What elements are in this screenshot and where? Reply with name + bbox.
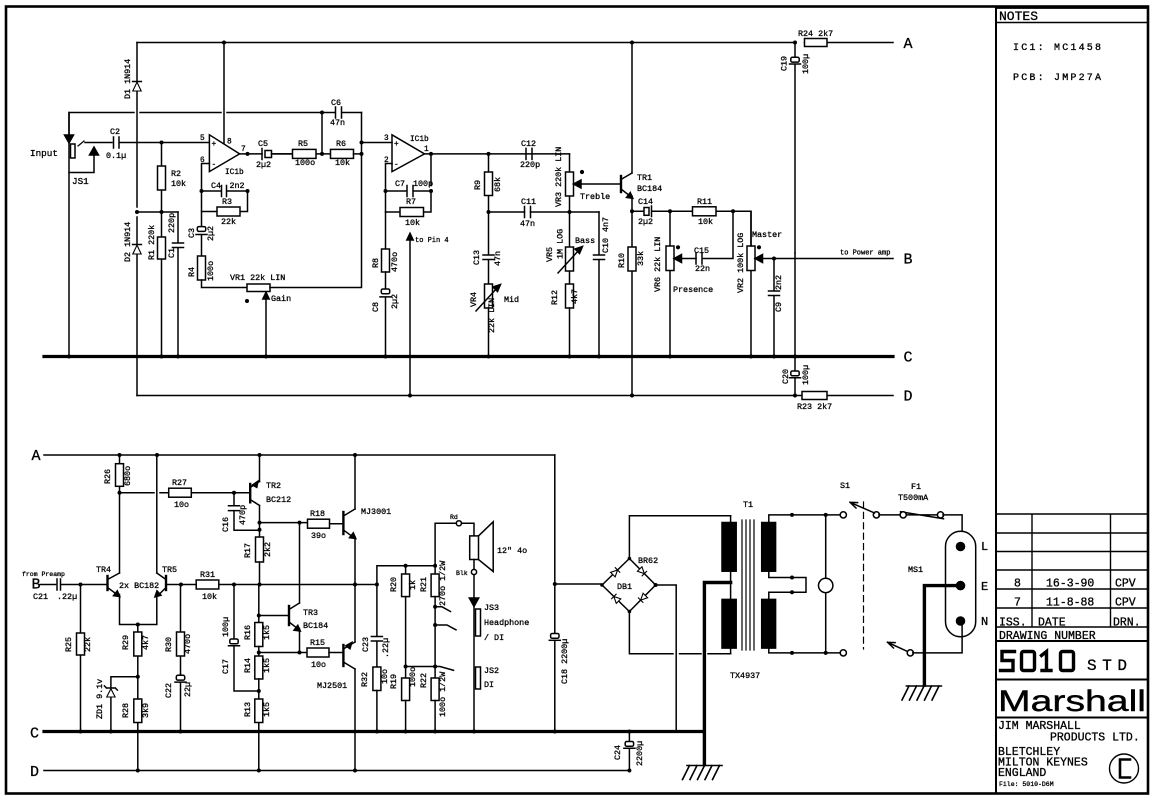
diode D1 1N914	[133, 43, 142, 208]
wire fuse to mains L	[943, 515, 962, 546]
wire bridge S to transformer primary bottom	[629, 612, 730, 654]
transistor MJ3001	[342, 512, 344, 534]
potentiometer VR3 220k LIN (Treble)	[569, 154, 571, 212]
wire TR2 collector chain	[259, 506, 261, 538]
svg-text:22k: 22k	[221, 217, 236, 227]
svg-text:C17: C17	[221, 659, 231, 674]
svg-text:22n: 22n	[695, 264, 710, 274]
svg-text:R2: R2	[171, 169, 181, 179]
svg-text:10o: 10o	[311, 660, 326, 670]
svg-text:2k2: 2k2	[263, 542, 273, 557]
wire mains E to ground (thick)	[924, 586, 956, 685]
resistor R19 100o	[402, 678, 410, 701]
svg-text:Mid: Mid	[504, 295, 519, 305]
capacitor C21 .22u	[57, 579, 108, 590]
fuse F1 T500mA	[879, 512, 944, 519]
svg-text:MS1: MS1	[908, 565, 923, 575]
transistor TR5	[165, 576, 167, 590]
svg-text:C7: C7	[395, 179, 405, 189]
svg-text:470o: 470o	[390, 252, 400, 272]
svg-text:R9: R9	[473, 180, 483, 190]
wire C11 node line y=212	[489, 211, 600, 213]
svg-text:100o: 100o	[408, 667, 418, 687]
svg-text:ISS.: ISS.	[999, 617, 1027, 630]
svg-text:2x BC182: 2x BC182	[119, 581, 159, 591]
transistor MJ2501	[342, 645, 344, 666]
svg-text:S1: S1	[840, 481, 850, 491]
wire TR3 collector	[299, 523, 301, 603]
svg-text:Blk: Blk	[456, 570, 468, 577]
wire TR5 collector to A rail	[156, 455, 158, 573]
svg-text:R7: R7	[406, 197, 416, 207]
capacitor C9 2n2	[769, 259, 780, 356]
wire main output line	[166, 584, 377, 586]
capacitor C23 .22u	[371, 585, 382, 668]
svg-text:BR62: BR62	[638, 556, 658, 566]
svg-text:TR5: TR5	[162, 565, 177, 575]
capacitor C22 22u	[175, 674, 186, 732]
capacitor C13 47n	[483, 212, 494, 284]
svg-text:IC1b: IC1b	[225, 169, 244, 177]
svg-text:C23: C23	[361, 637, 371, 652]
svg-text:CPV: CPV	[1115, 597, 1136, 610]
resistor R2 10k	[161, 143, 163, 213]
wire TR2 emitter to A rail	[259, 455, 261, 482]
svg-text:R1 220k: R1 220k	[147, 225, 157, 260]
capacitor C5 2u2	[262, 149, 293, 160]
wire R26 to R27 to TR2 base	[120, 492, 251, 494]
svg-text:B: B	[904, 252, 913, 269]
resistor R12 4k7	[566, 284, 574, 308]
svg-text:VR2 100k LOG: VR2 100k LOG	[736, 233, 746, 293]
svg-text:E: E	[981, 580, 988, 594]
svg-text:VR4: VR4	[469, 292, 479, 307]
svg-text:1k5: 1k5	[262, 702, 272, 717]
svg-text:Bass: Bass	[575, 236, 595, 246]
svg-text:VR1 22k LIN: VR1 22k LIN	[230, 273, 285, 283]
svg-text:R17: R17	[243, 543, 253, 558]
potentiometer VR4 22k LIN (Mid)	[485, 284, 493, 308]
svg-text:PRODUCTS LTD.: PRODUCTS LTD.	[1050, 732, 1140, 745]
capacitor C14 2u2	[652, 206, 671, 217]
svg-text:10k: 10k	[335, 158, 350, 168]
svg-text:C18 2200µ: C18 2200µ	[560, 639, 570, 684]
svg-text:DB1: DB1	[617, 582, 632, 592]
wire input line to IC pin5	[85, 142, 209, 144]
svg-text:0.1µ: 0.1µ	[106, 151, 126, 161]
op-amp IC1b first stage	[209, 135, 239, 172]
svg-text:C11: C11	[521, 197, 536, 207]
svg-text:R27: R27	[172, 478, 187, 488]
resistor R9 68k	[488, 154, 490, 212]
svg-text:7: 7	[241, 146, 246, 154]
wire C19 line down through B to C rail	[794, 253, 796, 355]
wire A rail junction dots	[222, 41, 797, 45]
node A rail (bottom section)	[44, 454, 555, 456]
capacitor C15 22n	[696, 211, 733, 264]
svg-text:68k: 68k	[493, 177, 503, 192]
svg-text:C5: C5	[258, 139, 268, 149]
svg-text:2200µ: 2200µ	[635, 741, 645, 766]
resistor R10 33k	[631, 211, 633, 395]
svg-text:C12: C12	[521, 139, 536, 149]
zener ZD1 9.1v	[104, 677, 137, 732]
capacitor C16 470p	[229, 493, 260, 531]
wire IC output node to C7/R7	[425, 154, 489, 186]
svg-text:TR1: TR1	[637, 173, 652, 183]
svg-text:IC1b: IC1b	[410, 136, 429, 144]
wire R11 to VR2 top	[733, 211, 751, 246]
capacitor C20 100u	[790, 359, 801, 396]
wire secondary centre taps	[769, 570, 806, 599]
svg-text:Treble: Treble	[580, 192, 610, 202]
resistor R32 10o	[373, 667, 381, 691]
svg-text:C2: C2	[110, 127, 120, 137]
svg-text:Gain: Gain	[271, 294, 291, 304]
svg-text:R16: R16	[243, 625, 253, 640]
wire IC1b -input	[202, 164, 210, 192]
svg-text:C15: C15	[694, 246, 709, 256]
transformer core	[742, 520, 754, 650]
resistor R24 2k7	[805, 39, 828, 47]
svg-text:220p: 220p	[520, 160, 540, 170]
svg-text:1k5: 1k5	[262, 625, 272, 640]
svg-text:IC1: MC1458: IC1: MC1458	[1013, 43, 1103, 54]
wire R14 junction to R15	[259, 652, 307, 654]
speaker 12" 4o	[470, 536, 479, 560]
speaker terminal Blk	[473, 560, 475, 570]
capacitor C19 100u	[790, 43, 801, 254]
resistor R13 1k5	[258, 679, 260, 771]
svg-text:R5: R5	[298, 139, 308, 149]
svg-text:47n: 47n	[493, 251, 503, 266]
svg-text:R32: R32	[360, 672, 370, 687]
capacitor C7 100p	[386, 186, 432, 197]
svg-text:from Preamp: from Preamp	[22, 571, 65, 578]
wire secondary top	[769, 515, 841, 523]
svg-text:3k9: 3k9	[141, 703, 151, 718]
svg-text:7: 7	[1014, 597, 1021, 610]
svg-text:JS2: JS2	[484, 666, 499, 676]
wire mains N to switch	[913, 624, 962, 653]
transistor TR3 BC184	[288, 606, 290, 625]
svg-text:DATE: DATE	[1038, 617, 1066, 630]
resistor R31 10k	[196, 580, 219, 589]
svg-text:39o: 39o	[311, 531, 326, 541]
svg-text:R11: R11	[697, 197, 712, 207]
svg-text:MJ2501: MJ2501	[317, 681, 347, 691]
svg-text:N: N	[981, 615, 988, 629]
svg-text:JS3: JS3	[484, 603, 499, 613]
svg-text:PCB: JMP27A: PCB: JMP27A	[1013, 73, 1103, 84]
svg-text:220p: 220p	[167, 213, 177, 233]
wire TR3 emitter to R15	[299, 629, 301, 653]
svg-text:10k: 10k	[202, 592, 217, 602]
svg-text:TR2: TR2	[266, 481, 281, 491]
svg-text:R21: R21	[419, 577, 429, 592]
svg-text:DRN.: DRN.	[1113, 617, 1141, 630]
svg-text:1: 1	[424, 146, 429, 154]
rail D bottom section	[44, 770, 629, 772]
resistor R28 3k9	[137, 677, 139, 771]
wire MJ3001 collector to A rail	[354, 455, 356, 509]
wire second stage +input	[362, 142, 393, 144]
svg-text:Headphone: Headphone	[484, 618, 529, 628]
mains inlet MS1	[946, 531, 976, 637]
speaker terminal Rd	[456, 521, 461, 526]
svg-text:2µ2: 2µ2	[256, 160, 271, 170]
resistor R18 39o	[260, 523, 344, 524]
svg-text:BC212: BC212	[266, 495, 291, 505]
capacitor C10 4n7	[594, 212, 605, 355]
neon lamp	[819, 578, 833, 592]
svg-text:Marshall: Marshall	[998, 685, 1146, 718]
svg-text:100o: 100o	[295, 158, 315, 168]
svg-text:File: 5010-D6M: File: 5010-D6M	[999, 781, 1054, 788]
svg-text:C: C	[30, 726, 39, 743]
svg-text:100o 1/2W: 100o 1/2W	[438, 671, 448, 717]
svg-text:+: +	[212, 141, 217, 149]
svg-text:R12: R12	[550, 290, 560, 305]
svg-text:10k: 10k	[171, 179, 186, 189]
rail C top section	[44, 355, 893, 358]
wire TR1 collector to A rail	[631, 43, 633, 174]
svg-text:2n2: 2n2	[774, 275, 784, 290]
svg-text:L: L	[981, 540, 988, 554]
resistor R20 1k	[405, 566, 407, 574]
svg-text:VR3 220k LIN: VR3 220k LIN	[554, 147, 564, 207]
to Pin 4 arrow	[409, 240, 411, 396]
svg-text:/ DI: / DI	[484, 633, 504, 643]
NOTES header	[996, 22, 1147, 24]
wire emitters join	[120, 595, 157, 625]
svg-text:.22µ: .22µ	[57, 592, 77, 602]
wire A rail corner to C18	[554, 455, 556, 732]
svg-text:1M LOG: 1M LOG	[556, 229, 566, 259]
wire MJ2501 emitter to rail D	[354, 669, 356, 771]
svg-text:C10: C10	[601, 238, 611, 253]
svg-text:TR4: TR4	[96, 565, 111, 575]
svg-text:DRAWING NUMBER: DRAWING NUMBER	[999, 630, 1096, 643]
bridge rectifier DB1 BR62	[602, 559, 656, 612]
svg-text:8: 8	[227, 139, 232, 147]
svg-text:R14: R14	[243, 658, 253, 673]
resistor R14 1k5	[258, 647, 260, 657]
svg-text:R10: R10	[617, 253, 627, 268]
revision table grid	[996, 514, 1147, 627]
resistor R23 2k7	[802, 392, 827, 400]
title panel left edge	[995, 8, 997, 793]
capacitor C18 2200u	[549, 639, 560, 641]
svg-text:R30: R30	[164, 637, 174, 652]
capacitor C6 47n	[322, 107, 362, 154]
svg-text:A: A	[904, 36, 913, 53]
jack JS3 Headphone/DI	[473, 575, 475, 732]
potentiometer VR2 100k LOG (Master)	[750, 211, 752, 355]
svg-text:100µ: 100µ	[801, 365, 811, 385]
svg-text:ZD1 9.1v: ZD1 9.1v	[95, 679, 105, 719]
svg-text:R15: R15	[310, 638, 325, 648]
svg-text:100o: 100o	[206, 261, 216, 281]
svg-text:-: -	[212, 162, 217, 170]
rail C junction dots top	[67, 355, 797, 359]
capacitor C8 2u2	[380, 272, 391, 355]
wire bridge E to rail C	[656, 585, 677, 732]
svg-text:R25: R25	[64, 637, 74, 652]
svg-text:C: C	[904, 350, 913, 367]
svg-text:470p: 470p	[238, 505, 248, 525]
wire node R1/R2/D junction y=212	[137, 211, 178, 213]
svg-text:R3: R3	[222, 197, 232, 207]
svg-text:1k5: 1k5	[262, 658, 272, 673]
resistor R7 10k	[386, 191, 432, 212]
svg-text:C21: C21	[33, 592, 48, 602]
svg-text:R28: R28	[121, 703, 131, 718]
svg-text:D2 1N914: D2 1N914	[123, 222, 133, 262]
svg-text:47n: 47n	[520, 219, 535, 229]
capacitor C17 100u	[229, 585, 259, 692]
svg-text:C19: C19	[780, 56, 790, 71]
svg-text:C13: C13	[472, 250, 482, 265]
wire VR1 right terminal to R6 node	[270, 113, 362, 288]
svg-text:22k LIN: 22k LIN	[487, 298, 497, 333]
svg-text:680o: 680o	[123, 466, 133, 486]
svg-text:C24: C24	[613, 745, 623, 760]
resistor R11 10k	[670, 210, 733, 212]
resistor R16 1k5	[258, 585, 260, 623]
svg-text:to Power amp: to Power amp	[840, 250, 890, 258]
svg-text:A: A	[32, 448, 41, 465]
svg-text:R23 2k7: R23 2k7	[797, 402, 832, 412]
svg-text:B: B	[32, 577, 41, 594]
svg-text:R4: R4	[187, 267, 197, 277]
wire IC1b out to C12/VR3	[489, 153, 570, 155]
svg-text:C1: C1	[167, 248, 177, 258]
svg-text:R13: R13	[243, 702, 253, 717]
svg-text:C20: C20	[781, 369, 791, 384]
svg-text:VR5: VR5	[545, 247, 555, 262]
resistor R29 4k7	[137, 625, 139, 677]
svg-text:100µ: 100µ	[801, 54, 811, 74]
potentiometer VR1 22k LIN (Gain)	[247, 284, 270, 292]
svg-text:C4: C4	[211, 181, 221, 191]
wire TR4 collector to R26	[119, 493, 121, 573]
resistor R8 470o	[385, 212, 387, 249]
svg-text:D1 1N914: D1 1N914	[123, 59, 133, 99]
svg-text:C9: C9	[774, 302, 784, 312]
svg-text:T500mA: T500mA	[898, 493, 929, 503]
svg-text:VR6 22k LIN: VR6 22k LIN	[653, 237, 663, 292]
svg-text:12″ 4o: 12″ 4o	[497, 546, 527, 556]
capacitor C4 2n2	[202, 186, 248, 197]
resistor R17 2k2	[256, 537, 264, 562]
svg-text:R29: R29	[121, 635, 131, 650]
wire second stage -input	[386, 164, 393, 192]
svg-text:R19: R19	[389, 674, 399, 689]
svg-text:Master: Master	[752, 230, 782, 240]
diode D2 1N914	[133, 217, 142, 396]
svg-text:CPV: CPV	[1115, 578, 1136, 591]
svg-text:1k: 1k	[408, 580, 418, 590]
svg-text:TX4937: TX4937	[730, 671, 760, 681]
svg-text:R24 2k7: R24 2k7	[798, 29, 833, 39]
svg-text:C8: C8	[371, 302, 381, 312]
transformer centre tap thick ground	[704, 583, 730, 765]
svg-text:D: D	[904, 389, 913, 406]
resistor R26 680o	[119, 455, 121, 493]
svg-text:D: D	[30, 764, 39, 781]
jack JS2 DI	[476, 667, 481, 689]
svg-text:F1: F1	[911, 482, 921, 492]
svg-text:2µ2: 2µ2	[390, 294, 400, 309]
svg-text:10k: 10k	[698, 217, 713, 227]
copyright mark	[1110, 754, 1139, 783]
svg-text:R26: R26	[103, 469, 113, 484]
svg-text:to Pin 4: to Pin 4	[415, 237, 449, 245]
rail D top section	[137, 395, 893, 397]
svg-text:C14: C14	[638, 197, 653, 207]
resistor R4 100o	[198, 256, 206, 280]
svg-text:47n: 47n	[330, 118, 345, 128]
jack JS3 contact taps	[435, 607, 456, 630]
capacitor C11 47n	[525, 207, 531, 218]
svg-text:R22: R22	[419, 673, 429, 688]
svg-text:T1: T1	[743, 500, 753, 510]
wire JS1 sleeve to rail C	[68, 173, 70, 356]
svg-text:Rd: Rd	[450, 514, 458, 521]
svg-text:270o 1/2W: 270o 1/2W	[438, 560, 448, 606]
ground symbol (transformer)	[683, 766, 723, 780]
drawing number 5010 STD	[1001, 652, 1074, 671]
resistor R6 10k	[331, 149, 354, 158]
svg-text:10o: 10o	[174, 500, 189, 510]
wire IC1b output pin7	[240, 153, 262, 155]
resistor R27 10o	[169, 488, 192, 497]
svg-text:2µ2: 2µ2	[638, 217, 653, 227]
potentiometer VR5 1M LOG (Bass)	[569, 212, 571, 284]
resistor R5 100o	[272, 153, 331, 155]
svg-text:10k: 10k	[405, 218, 420, 228]
resistor R30 470o	[180, 585, 182, 675]
svg-text:33k: 33k	[636, 251, 646, 266]
rail C bottom section	[44, 730, 703, 733]
svg-text:Presence: Presence	[673, 285, 713, 295]
transistor TR2 BC212	[249, 484, 251, 502]
svg-text:100µ: 100µ	[221, 617, 231, 637]
svg-text:-: -	[394, 162, 399, 170]
svg-text:2n2: 2n2	[230, 181, 245, 191]
wire speaker feed riser	[377, 523, 474, 584]
svg-text:22µ: 22µ	[183, 682, 193, 697]
wire MJ3001 emitter to output node	[354, 537, 356, 585]
transformer T1 secondary windings	[762, 523, 776, 572]
svg-text:MJ3001: MJ3001	[361, 507, 391, 517]
svg-text:4k7: 4k7	[141, 635, 151, 650]
svg-text:BC184: BC184	[637, 184, 662, 194]
wire TR1 emitter node	[632, 196, 644, 211]
svg-text:R18: R18	[310, 509, 325, 519]
svg-text:C3: C3	[187, 228, 197, 238]
wire R20 down to R19	[405, 597, 407, 678]
jack JS2 contact tap	[406, 667, 454, 671]
capacitor C2 0.1u	[114, 137, 120, 148]
wire MJ2501 collector to output node	[354, 585, 356, 643]
svg-text:4k7: 4k7	[570, 289, 580, 304]
resistor R15 10o	[307, 648, 329, 657]
node A rail (top supply)	[137, 42, 893, 44]
op-amp IC1b second stage	[392, 135, 425, 172]
svg-text:100p: 100p	[413, 179, 433, 189]
